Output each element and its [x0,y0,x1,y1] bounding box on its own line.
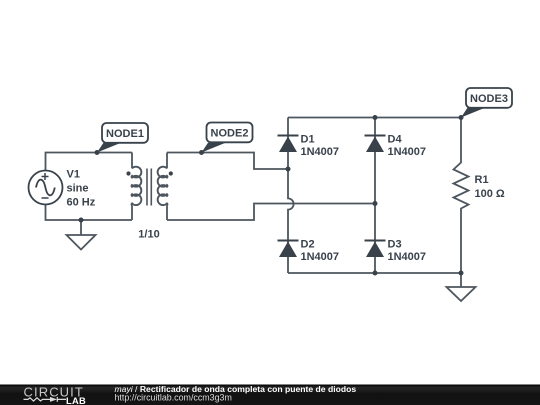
svg-text:1N4007: 1N4007 [301,251,340,263]
svg-text:NODE1: NODE1 [106,128,144,140]
svg-text:1N4007: 1N4007 [301,146,340,158]
svg-text:V1: V1 [67,169,80,181]
svg-text:D1: D1 [301,133,315,145]
svg-text:D4: D4 [388,133,403,145]
svg-text:1/10: 1/10 [138,229,159,241]
svg-text:R1: R1 [475,174,489,186]
svg-text:http://circuitlab.com/ccm3g3m: http://circuitlab.com/ccm3g3m [115,393,232,403]
svg-text:sine: sine [67,183,89,195]
svg-text:1N4007: 1N4007 [388,251,427,263]
svg-text:1N4007: 1N4007 [388,146,427,158]
svg-text:NODE2: NODE2 [211,127,249,139]
svg-text:D2: D2 [301,238,315,250]
svg-text:60 Hz: 60 Hz [67,197,96,209]
svg-text:NODE3: NODE3 [470,93,508,105]
svg-text:D3: D3 [388,238,402,250]
svg-text:LAB: LAB [66,396,86,405]
svg-text:100 Ω: 100 Ω [475,188,505,200]
